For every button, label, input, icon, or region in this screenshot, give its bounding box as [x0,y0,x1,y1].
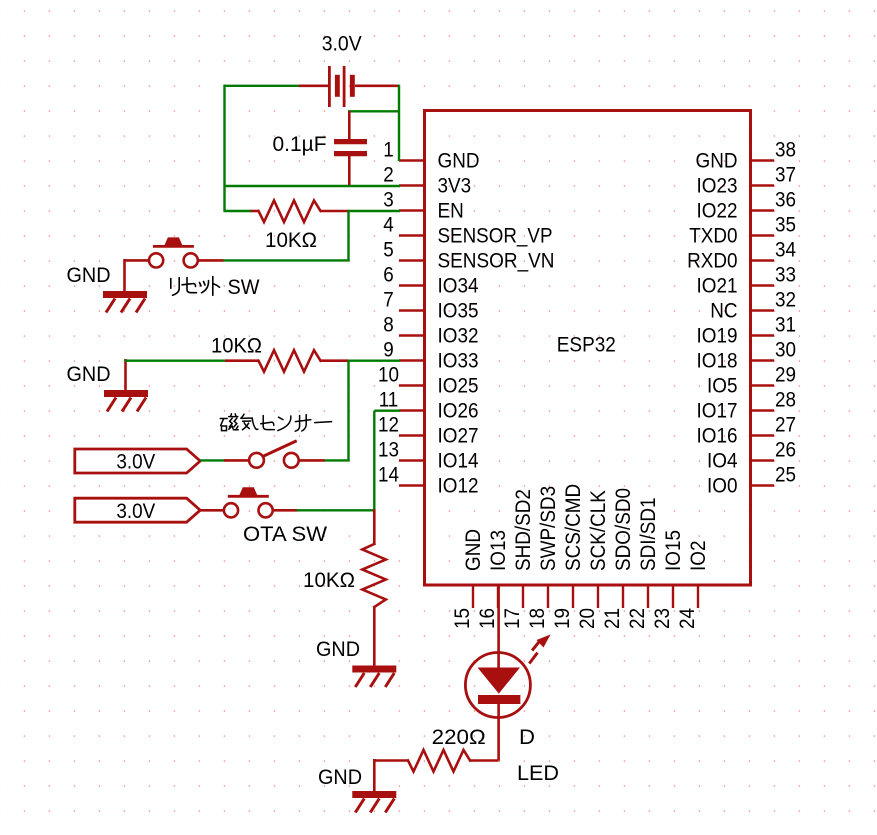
pin 6 IO34 (left) [383,264,479,298]
pin 24 IO2 (bottom) [676,541,710,630]
svg-text:13: 13 [378,439,399,462]
pin 11 IO26 (left) [379,389,479,423]
svg-text:3: 3 [383,189,394,212]
svg-text:IO12: IO12 [438,475,479,498]
label リセット SW [171,277,220,296]
svg-text:GND: GND [318,766,362,789]
wire EN down to reset switch [347,211,349,262]
svg-text:SWP/SD3: SWP/SD3 [537,486,560,571]
svg-text:IO18: IO18 [697,350,738,373]
svg-text:12: 12 [378,414,399,437]
wire R2 to pin 9 IO33 [348,360,400,362]
pin 3 EN (left) [383,189,464,223]
pin 28 IO17 (right) [697,389,797,423]
wire pin 16 IO13 down to LED [497,585,500,668]
ground symbol (R3) [352,669,396,687]
wire VCC battery left to corner [224,85,300,87]
svg-text:IO26: IO26 [438,400,479,423]
pin 10 IO25 (left) [378,364,479,398]
svg-text:IO35: IO35 [438,300,479,323]
svg-text:SENSOR_VN: SENSOR_VN [438,250,555,273]
pin 29 IO5 (right) [707,364,796,398]
wire IO33 down to sensor switch [347,361,349,462]
capacitor value 0.1µF [273,133,327,156]
label SW (reset) [228,276,260,299]
label OTA SW [243,523,327,546]
label 磁気センサー [220,414,331,431]
svg-text:0.1µF: 0.1µF [273,133,327,156]
svg-text:33: 33 [775,264,796,287]
svg-text:GND: GND [67,363,111,386]
wire EN row left [224,210,252,212]
wire IO26 row to pin 11 [374,410,400,412]
svg-text:14: 14 [378,464,399,487]
svg-text:SW: SW [228,276,260,299]
battery BT1 3.0V [299,66,399,107]
wire VCC vertical left [223,85,225,212]
svg-text:17: 17 [501,608,524,629]
svg-text:IO16: IO16 [697,425,738,448]
LED light arrow [529,635,550,664]
svg-text:IO27: IO27 [438,425,479,448]
pin 27 IO16 (right) [697,414,797,448]
pin 38 GND (right) [696,139,797,173]
svg-text:2: 2 [383,164,394,187]
svg-text:SCS/CMD: SCS/CMD [562,484,585,571]
svg-text:10KΩ: 10KΩ [303,569,355,592]
pin 18 SWP/SD3 (bottom) [526,486,560,629]
svg-text:37: 37 [775,164,796,187]
wire VCC battery right down [398,85,400,161]
wire cap top to vcc vertical [348,110,400,112]
pin 35 TXD0 (right) [689,214,796,248]
svg-text:IO19: IO19 [697,325,738,348]
svg-text:IO21: IO21 [697,275,738,298]
pin 13 IO14 (left) [378,439,479,473]
pin 5 SENSOR_VN (left) [383,239,554,273]
svg-text:16: 16 [476,608,499,629]
resistor R4 220Ω [374,750,498,772]
net label GND (reset) [67,264,111,287]
svg-text:32: 32 [775,289,796,312]
switch SW1 リセットSW push button [125,237,224,267]
svg-text:SHD/SD2: SHD/SD2 [512,489,535,571]
svg-text:IO25: IO25 [438,375,479,398]
resistor R3 value 10KΩ [303,569,355,592]
svg-text:5: 5 [383,239,394,262]
pin 17 SHD/SD2 (bottom) [501,489,535,629]
pin 4 SENSOR_VP (left) [383,214,552,248]
svg-text:ESP32: ESP32 [557,334,616,357]
svg-text:RXD0: RXD0 [687,250,737,273]
svg-text:3.0V: 3.0V [116,500,155,523]
pin 19 SCS/CMD (bottom) [551,484,585,629]
svg-text:22: 22 [626,608,649,629]
svg-text:IO14: IO14 [438,450,479,473]
svg-text:19: 19 [551,608,574,629]
pin 25 IO0 (right) [707,464,796,498]
switch SW3 OTA SW push button [199,487,298,517]
svg-text:SCK/CLK: SCK/CLK [587,490,610,571]
resistor R2 10KΩ [225,350,349,372]
svg-text:28: 28 [775,389,796,412]
svg-text:3V3: 3V3 [438,175,472,198]
svg-text:IO23: IO23 [697,175,738,198]
svg-text:6: 6 [383,264,394,287]
svg-text:IO4: IO4 [707,450,738,473]
svg-text:27: 27 [775,414,796,437]
resistor R3 10KΩ (OTA pulldown) [362,509,386,667]
svg-text:LED: LED [517,762,559,785]
svg-text:24: 24 [676,608,699,629]
svg-text:IO2: IO2 [687,541,710,572]
svg-text:GND: GND [438,150,480,173]
label LED [517,762,559,785]
pin 26 IO4 (right) [707,439,796,473]
svg-text:31: 31 [775,314,796,337]
svg-text:220Ω: 220Ω [432,726,486,749]
svg-text:20: 20 [576,608,599,629]
svg-text:GND: GND [316,638,360,661]
svg-text:29: 29 [775,364,796,387]
svg-text:3.0V: 3.0V [116,451,155,474]
svg-text:11: 11 [379,389,399,412]
svg-text:IO5: IO5 [707,375,738,398]
svg-text:26: 26 [775,439,796,462]
net label GND (IO33) [67,363,111,386]
pin 15 GND (bottom) [451,529,485,629]
resistor R2 value 10KΩ [211,335,262,358]
wire IO26 vertical [373,411,375,511]
wire GND to R2 [125,360,227,362]
pin 20 SCK/CLK (bottom) [576,490,610,629]
ground symbol (R4) [352,759,396,813]
net label GND (R4) [318,766,362,789]
pin 1 GND (left) [383,139,479,173]
pin 12 IO27 (left) [378,414,479,448]
ground symbol (IO33 pulldown) [104,359,148,412]
resistor R1 10KΩ [250,201,349,223]
wire sensor switch to IO33 vertical [324,459,350,461]
power flag 3.0V (OTA) [75,498,200,522]
LED D1 [465,653,530,761]
svg-text:SDI/SD1: SDI/SD1 [637,498,660,572]
svg-text:GND: GND [67,264,111,287]
pin 31 IO19 (right) [697,314,797,348]
ground symbol (reset switch) [103,259,147,313]
svg-text:SENSOR_VP: SENSOR_VP [438,225,553,248]
pin 30 IO18 (right) [697,339,797,373]
wire 3V3 row to pin 2 [224,185,401,187]
svg-text:IO0: IO0 [707,475,738,498]
svg-text:IO33: IO33 [438,350,479,373]
svg-text:23: 23 [651,608,674,629]
svg-text:GND: GND [696,150,738,173]
resistor R1 value 10KΩ [265,229,317,252]
pin 22 SDI/SD1 (bottom) [626,498,660,630]
svg-text:30: 30 [775,339,796,362]
wire reset switch to EN vertical [223,259,350,261]
pin 36 IO22 (right) [697,189,797,223]
pin 7 IO35 (left) [383,289,478,323]
capacitor C1 0.1µF [334,111,367,185]
svg-text:25: 25 [775,464,796,487]
power flag 3.0V (sensor) [75,449,200,473]
svg-text:OTA SW: OTA SW [243,523,327,546]
svg-text:10KΩ: 10KΩ [265,229,317,252]
pin 16 IO13 (bottom) [476,530,510,629]
svg-text:7: 7 [383,289,394,312]
svg-text:IO22: IO22 [697,200,738,223]
svg-text:IO13: IO13 [487,530,510,571]
label D [519,726,535,749]
svg-text:IO15: IO15 [662,530,685,571]
svg-text:IO34: IO34 [438,275,479,298]
svg-text:GND: GND [462,529,485,571]
svg-text:IO17: IO17 [697,400,738,423]
svg-text:9: 9 [383,339,394,362]
pin 23 IO15 (bottom) [651,530,685,629]
svg-text:3.0V: 3.0V [322,33,362,56]
svg-text:35: 35 [775,214,796,237]
pin 33 IO21 (right) [697,264,797,298]
svg-text:10: 10 [378,364,399,387]
svg-text:IO32: IO32 [438,325,479,348]
net label GND (R3) [316,638,360,661]
svg-text:NC: NC [710,300,737,323]
pin 14 IO12 (left) [378,464,479,498]
svg-text:4: 4 [383,214,394,237]
svg-text:18: 18 [526,608,549,629]
svg-text:1: 1 [383,139,394,162]
svg-text:21: 21 [601,608,624,629]
pin 2 3V3 (left) [383,164,471,198]
svg-text:34: 34 [775,239,796,262]
wire 3.0V flag to sensor switch [200,459,225,461]
svg-text:D: D [519,726,535,749]
resistor R4 value 220Ω [432,726,486,749]
pin 32 NC (right) [710,289,796,323]
IC U1 ESP32 body [425,111,751,586]
IC U1 name ESP32 [557,334,616,357]
pin 34 RXD0 (right) [687,239,796,273]
wire OTA switch to IO26 vertical [297,509,376,511]
battery value 3.0V [322,33,362,56]
switch SW2 磁気センサー SPST [224,441,325,468]
svg-text:36: 36 [775,189,796,212]
wire EN row right to pin 3 [348,210,400,212]
pin 8 IO32 (left) [383,314,478,348]
pin 9 IO33 (left) [383,339,478,373]
svg-text:15: 15 [451,608,474,629]
svg-text:38: 38 [775,139,796,162]
pin 21 SDO/SD0 (bottom) [601,488,635,629]
svg-text:10KΩ: 10KΩ [211,335,262,358]
pin 37 IO23 (right) [697,164,797,198]
svg-text:EN: EN [438,200,464,223]
svg-text:TXD0: TXD0 [689,225,737,248]
svg-text:SDO/SD0: SDO/SD0 [612,488,635,571]
svg-text:8: 8 [383,314,394,337]
